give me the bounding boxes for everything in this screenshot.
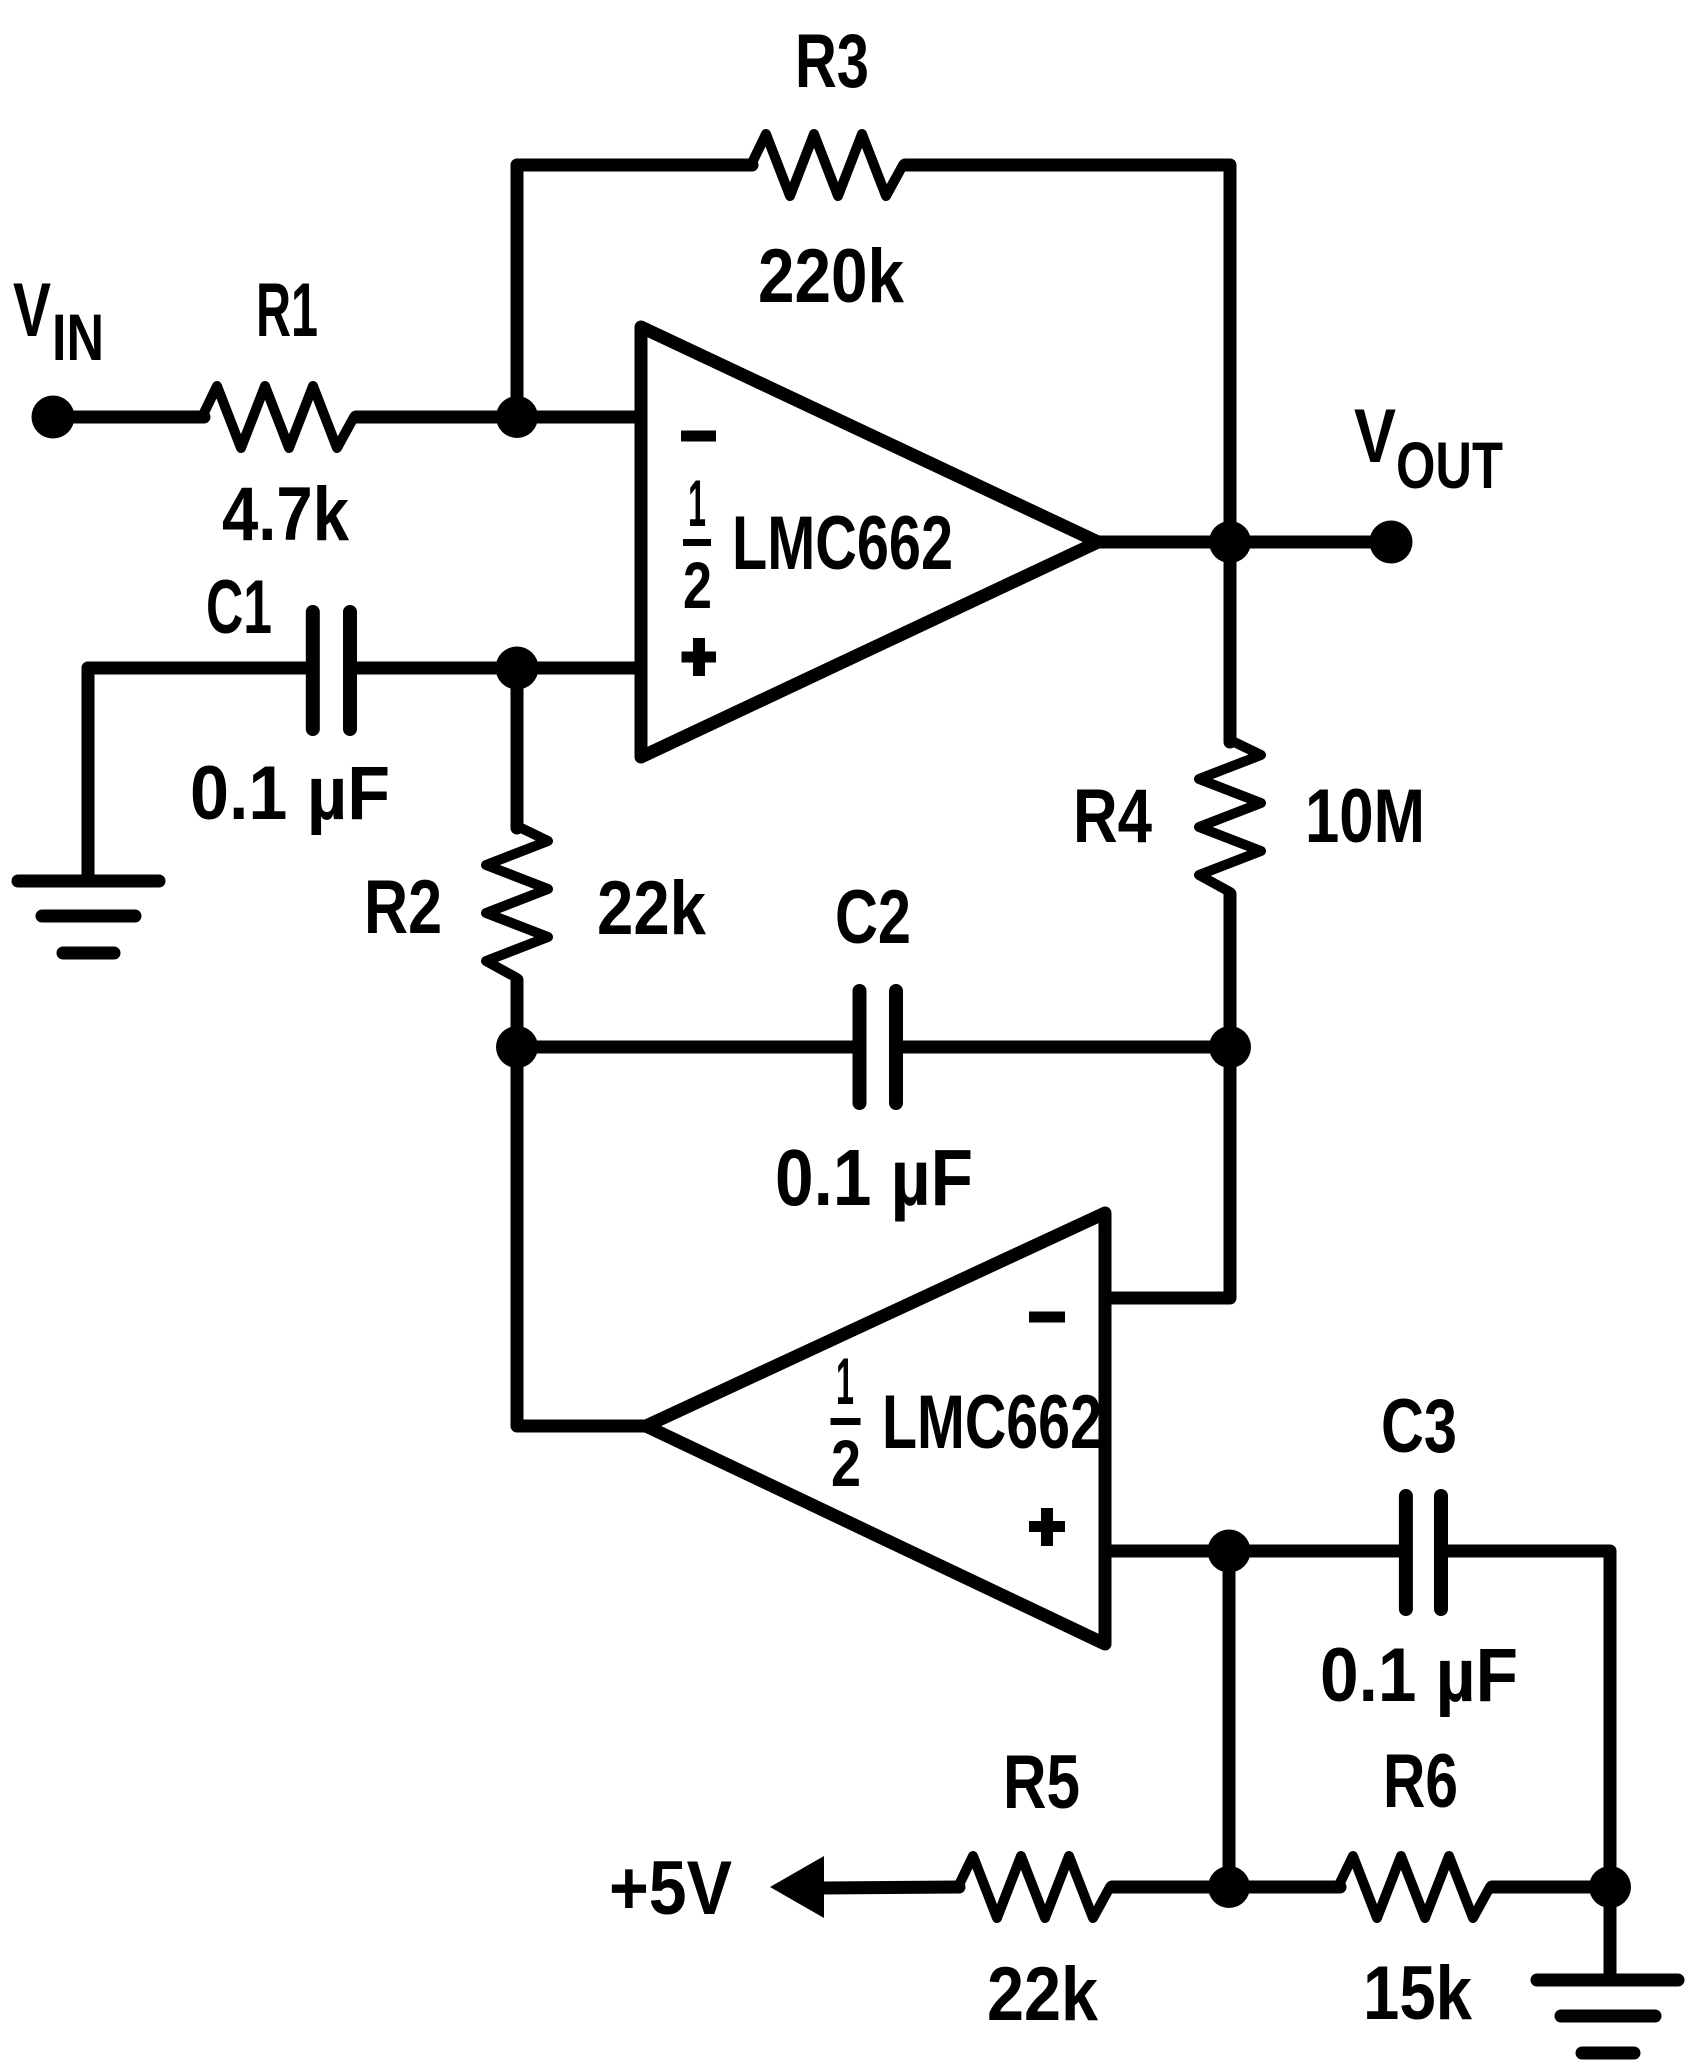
svg-text:1: 1 [836,1344,854,1418]
wire VIN to R1 [53,411,204,424]
svg-text:C2: C2 [835,875,911,960]
svg-text:10M: 10M [1305,774,1425,859]
capacitor C1 left wire [88,662,306,675]
svg-text:LMC662: LMC662 [882,1380,1102,1465]
wire C3 junction down to R5/R6 row [1223,1551,1236,1887]
svg-text:15k: 15k [1363,1951,1473,2036]
wire arrow to R5 [822,1887,959,1888]
wire down to ground right [1604,1887,1617,1975]
wire R4 rail [1224,542,1237,742]
wire left rail down to opamp2 output [517,1047,646,1426]
resistor R1 [202,386,354,448]
wire opamp2 plus input to C3 junction [1105,1545,1229,1558]
node junction R5 R6 [1208,1866,1250,1908]
svg-text:R1: R1 [256,268,318,353]
wire C1 down to ground [82,668,95,876]
op-amp U2 [646,1213,1105,1644]
svg-text:V: V [1354,394,1396,479]
svg-text:22k: 22k [597,866,707,951]
svg-text:2: 2 [683,548,712,622]
svg-text:0.1 µF: 0.1 µF [775,1133,973,1222]
capacitor C3 row wires [1229,1545,1399,1558]
svg-text:C1: C1 [206,565,272,650]
resistor R6 [1338,1856,1490,1918]
label VIN [13,268,104,374]
wire junction A up and to R3 [517,165,752,417]
op-amp U1 minus sign [681,431,716,442]
wire R1 to opamp minus input [356,411,641,424]
svg-text:LMC662: LMC662 [732,501,953,586]
svg-text:R6: R6 [1383,1739,1458,1824]
node VOUT terminal [1370,521,1413,564]
node junction C2 right [1209,1026,1251,1068]
+5V arrow [770,1856,824,1918]
svg-text:R4: R4 [1073,774,1152,859]
capacitor C3 [1406,1496,1441,1609]
svg-text:C3: C3 [1381,1384,1457,1469]
node junction C2 left [496,1026,538,1068]
svg-text:1: 1 [688,466,706,540]
ground left [18,881,159,953]
op-amp U1 fraction 1/2 [683,466,712,622]
wire R5 to junction [1112,1881,1229,1894]
capacitor C1 [313,612,350,729]
node VIN terminal [32,396,75,439]
svg-text:2: 2 [831,1426,861,1500]
svg-text:22k: 22k [987,1952,1099,2037]
svg-text:R2: R2 [364,865,442,950]
svg-text:IN: IN [52,300,104,374]
label VOUT [1354,394,1503,502]
svg-text:R3: R3 [795,19,869,104]
svg-text:OUT: OUT [1396,428,1503,502]
svg-text:R5: R5 [1003,1740,1080,1825]
node junction C3 left [1208,1530,1251,1573]
wire C1 to opamp plus input [356,662,641,675]
wire opamp1 output to VOUT [1098,536,1390,549]
resistor R5 [958,1856,1110,1918]
node junction B [496,647,539,690]
svg-text:+5V: +5V [609,1846,732,1931]
op-amp U2 plus sign [1029,1508,1065,1546]
ground right [1537,1980,1678,2053]
svg-text:220k: 220k [758,234,905,319]
wire R6 to right junction [1492,1881,1610,1894]
svg-text:4.7k: 4.7k [222,472,350,557]
wire R3 to right rail down to output node [905,165,1230,542]
node junction A [496,396,538,438]
resistor R2 [486,668,548,1047]
wire junction to R6 [1229,1881,1340,1894]
op-amp U1 [641,327,1098,757]
node junction R6 right [1589,1866,1631,1908]
svg-text:V: V [13,268,51,353]
node output junction [1209,521,1251,563]
op-amp U1 plus sign [682,638,717,676]
op-amp U2 minus sign [1029,1312,1065,1323]
capacitor C2 [860,991,897,1103]
svg-text:0.1 µF: 0.1 µF [190,751,390,836]
op-amp U2 fraction 1/2 [831,1344,862,1500]
wire right rail down to opamp2 minus input [1105,1047,1230,1298]
svg-text:0.1 µF: 0.1 µF [1320,1633,1518,1718]
resistor R3 [751,134,903,196]
capacitor C2 row wires [517,1041,853,1054]
resistor R4 [1199,740,1261,892]
